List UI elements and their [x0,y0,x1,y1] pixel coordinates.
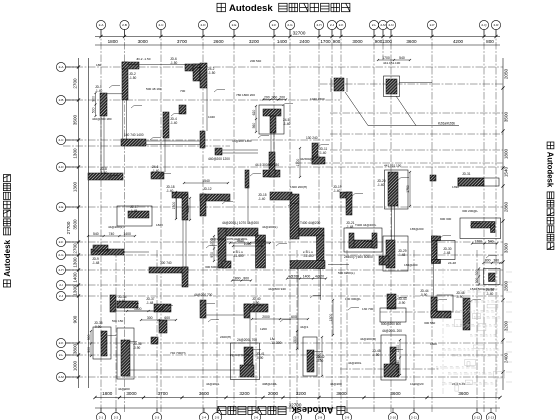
node top axis 2-Q [479,20,488,29]
svg-text:560: 560 [252,123,256,129]
svg-text:Autodesk: Autodesk [229,3,273,14]
svg-text:3600: 3600 [336,391,347,396]
svg-text:440@200 180: 440@200 180 [92,117,112,121]
svg-text:-1.48: -1.48 [146,301,153,305]
grid line H11 [63,342,503,344]
node top axis 2-A [96,20,105,29]
interior dimension 540/740/1400 [87,232,136,237]
svg-text:2-D: 2-D [201,23,207,27]
svg-text:44@200(L): 44@200(L) [108,225,124,229]
svg-text:2600: 2600 [213,39,224,44]
svg-text:-1.50: -1.50 [170,61,177,65]
svg-text:2-10: 2-10 [390,415,396,419]
dimension chain right [501,58,508,390]
svg-text:44@200L: 44@200L [206,382,220,386]
svg-text:1400: 1400 [123,232,131,236]
node top axis 2-K [336,20,345,29]
svg-text:760 740: 760 740 [396,360,400,372]
svg-text:2-6: 2-6 [254,415,259,419]
svg-text:1400: 1400 [277,39,288,44]
beam B15 [116,310,154,312]
svg-text:200: 200 [279,95,285,99]
svg-text:3500: 3500 [73,114,78,125]
svg-text:2000: 2000 [155,307,163,311]
svg-text:1000: 1000 [73,360,78,371]
svg-text:2-E: 2-E [59,205,64,209]
grid line Hp5 (partial) [330,149,503,151]
svg-text:900: 900 [333,39,341,44]
svg-text:3500: 3500 [504,111,509,122]
wall W36 [117,328,142,379]
svg-text:-0.90: -0.90 [420,293,427,297]
svg-text:540: 540 [488,239,494,243]
wall JD-11 [306,136,327,164]
beam B23 [399,82,432,84]
svg-text:500: 500 [91,107,95,113]
svg-text:1300: 1300 [396,345,400,353]
grid line Hp3 (partial) [330,133,503,135]
interior dimension 1540 [183,179,229,184]
interior dimension 200/960/200 (above JD-8) [262,95,287,100]
grid line H12 [63,354,503,356]
grid line V2 [124,30,126,413]
wall W34 [110,295,138,312]
leader line from column KZ-2 [396,96,416,126]
svg-text:1500: 1500 [134,307,142,311]
svg-text:1700: 1700 [474,239,482,243]
svg-text:-0.90: -0.90 [94,325,101,329]
grid line V-b7 (bottom partial) [413,250,415,412]
svg-text:-1.48: -1.48 [398,253,405,257]
svg-text:1040 1500: 1040 1500 [310,97,325,101]
wall W19 [91,245,124,265]
wall W24 [200,187,230,216]
interior elevation -13.300 [270,337,282,345]
svg-text:130 240: 130 240 [306,136,318,140]
svg-text:3700: 3700 [177,39,188,44]
node bottom axis b10 [388,413,397,420]
svg-text:2400(H): 2400(H) [220,335,231,339]
grid line V1 [100,30,102,413]
svg-text:200200: 200200 [254,239,265,243]
grid line H1 [63,66,503,68]
svg-text:2-8: 2-8 [318,415,323,419]
svg-text:2700: 2700 [73,78,78,89]
node left axis L1 [56,62,65,71]
wall JD-2 [122,62,139,100]
interior dimension 44@200/1400 (below core R) [286,274,327,279]
svg-text:3000: 3000 [138,39,149,44]
interior dimension 1500 (x297) [293,330,298,350]
svg-text:1040: 1040 [208,115,215,119]
wall W16 [151,165,164,179]
grid line V10 [340,30,342,413]
svg-text:-1.40: -1.40 [486,292,493,296]
svg-text:780 1800 200: 780 1800 200 [236,93,255,97]
svg-text:24@200L 700: 24@200L 700 [237,338,257,342]
svg-text:2-G: 2-G [58,253,64,257]
interior dimension 2300 (left) [172,191,177,220]
svg-text:3200: 3200 [249,39,260,44]
node left axis L3 [56,135,65,144]
svg-text:32700: 32700 [289,402,302,407]
beam B11 [270,133,272,152]
node bottom axis b5 [212,413,221,420]
svg-text:100 300@L: 100 300@L [345,297,361,301]
svg-text:T400 44@200: T400 44@200 [300,221,320,225]
beam B19 [206,314,244,316]
svg-text:440@200 1200: 440@200 1200 [208,157,230,161]
grid line H5 [63,206,503,208]
svg-text:2-L: 2-L [372,23,377,27]
wall W47 [430,175,436,181]
svg-text:27700: 27700 [66,221,71,234]
node left axis L12 [56,350,65,359]
grid line V13 [390,30,392,413]
grid line H10 [63,295,503,297]
svg-text:165@200: 165@200 [410,227,424,231]
svg-text:3200: 3200 [296,391,307,396]
svg-text:1750: 1750 [406,185,410,193]
svg-text:500 150: 500 150 [112,319,123,323]
interior dimension 2000/600 [251,315,309,320]
svg-text:2-2: 2-2 [114,415,119,419]
svg-text:-1.48: -1.48 [443,251,450,255]
svg-text:300 200@L: 300 200@L [462,209,478,213]
node bottom axis b3 [152,413,161,420]
svg-text:24400(?) 600 50500: 24400(?) 600 50500 [344,255,373,259]
label leader marks [98,67,497,354]
svg-text:300: 300 [493,259,499,263]
grid line Hp4 (partial) [63,145,230,147]
svg-text:44@200(L) 1070 44@200: 44@200(L) 1070 44@200 [222,221,259,225]
svg-text:44@200L: 44@200L [348,361,362,365]
node top axis 2-R [491,20,500,29]
svg-text:2-L: 2-L [59,353,64,357]
wall W35 [87,321,111,359]
node left axis L9 [56,280,65,289]
svg-text:-11.400: -11.400 [233,254,244,258]
svg-text:3200: 3200 [239,391,250,396]
svg-text:2@40(H)L 700: 2@40(H)L 700 [230,353,251,357]
watermark bottom: Autodesk educational plot stamp [218,405,345,415]
dimension chain bottom [93,391,501,408]
grid line V4 [202,30,204,413]
svg-text:1500: 1500 [293,336,297,344]
grid line V-b8 (bottom partial) [476,250,478,412]
faint underlay drawing (bottom right) [436,268,512,395]
svg-text:-0.90: -0.90 [252,301,259,305]
svg-text:-1.48: -1.48 [346,225,353,229]
svg-text:Autodesk: Autodesk [546,152,555,188]
svg-text:4@20: 4@20 [315,274,324,278]
svg-text:1800: 1800 [504,148,509,159]
svg-text:165@200: 165@200 [404,263,418,267]
grid line H4 [63,166,503,168]
beam B27 [182,220,184,267]
node bottom axis b7 [292,413,301,420]
beam B5 [176,198,178,219]
svg-text:2-B: 2-B [59,98,64,102]
svg-text:2-J: 2-J [330,23,335,27]
svg-text:600: 600 [291,315,297,319]
node top axis 2-F [269,20,278,29]
interior dimension 1700/540 (right) [377,56,411,61]
svg-text:500 48 190: 500 48 190 [146,87,162,91]
beam B21 [394,206,396,240]
svg-text:1700: 1700 [320,39,331,44]
svg-text:3000: 3000 [126,391,137,396]
interior dimension 1040 (mid) [232,242,263,247]
svg-text:3600: 3600 [390,391,401,396]
core wall left [210,221,266,268]
beam B14 [124,251,149,253]
svg-text:1500: 1500 [329,314,333,322]
svg-text:2-I: 2-I [59,283,63,287]
svg-text:44@200 1300: 44@200 1300 [232,139,252,143]
node top axis 2-G [285,20,294,29]
svg-text:3700: 3700 [158,391,169,396]
grid line V-b6 (bottom partial) [346,250,348,412]
beam B24 [247,188,249,222]
grid line H13 [63,376,503,378]
beam B28 [185,220,187,267]
svg-text:3600: 3600 [199,391,210,396]
svg-text:1200: 1200 [260,327,267,331]
svg-text:1500: 1500 [318,353,322,361]
svg-text:900: 900 [73,315,78,323]
svg-text:1320: 1320 [186,205,190,213]
watermark top: Autodesk educational plot stamp [217,3,350,14]
svg-text:620: 620 [252,110,256,116]
svg-text:3500: 3500 [73,219,78,230]
svg-text:-1.48: -1.48 [92,261,99,265]
svg-text:180: 180 [96,63,101,67]
grid line V16 [495,30,497,413]
node top axis 2-B [120,20,129,29]
svg-text:1800: 1800 [233,276,241,280]
svg-text:540: 540 [93,232,99,236]
svg-text:2-5: 2-5 [215,415,220,419]
grid line H9 [63,284,503,286]
wall JD-12 T [255,152,280,177]
grid line V-b3 (bottom partial) [216,250,218,412]
svg-text:2-C: 2-C [159,23,165,27]
svg-text:44@200: 44@200 [330,382,342,386]
svg-text:3300: 3300 [504,242,509,253]
svg-text:-1.40: -1.40 [170,121,177,125]
grid line V-b2 (bottom partial) [156,250,158,412]
beam B30 [249,318,251,347]
node top axis 2-D [198,20,207,29]
svg-text:-11.400: -11.400 [303,254,314,258]
grid line Hp1 (partial) [320,83,503,85]
svg-text:JD-12: JD-12 [203,187,212,191]
node bottom axis b6 [251,413,260,420]
node bottom axis b2 [111,413,120,420]
wall JD-4 [163,112,177,138]
node top axis 2-L [369,20,378,29]
svg-text:T400 44@200L: T400 44@200L [355,223,377,227]
grid line H8 [63,269,503,271]
leader tick marks near KZ-1 [331,78,347,92]
svg-text:24-48: 24-48 [448,261,456,265]
wall W44 [420,289,453,318]
svg-text:960: 960 [272,95,278,99]
svg-text:1300: 1300 [73,148,78,159]
svg-text:2-1: 2-1 [99,415,104,419]
beam B1 [107,93,122,95]
svg-text:900: 900 [87,334,91,340]
grid line V3 [160,30,162,413]
wall W45 T [372,329,406,380]
svg-text:44@200(L): 44@200(L) [262,225,278,229]
svg-text:44@1: 44@1 [300,325,309,329]
svg-text:2-M: 2-M [380,23,386,27]
wall W18 [166,185,191,221]
interior dimension 1500 (x300) [296,147,301,178]
svg-text:JD-2 -1.50: JD-2 -1.50 [136,57,151,61]
wall W30 C [432,236,456,264]
svg-text:900: 900 [87,347,91,353]
grid line V14 [431,30,433,413]
beam B2 [128,64,185,66]
svg-text:2400: 2400 [299,39,310,44]
svg-text:1300: 1300 [73,285,78,296]
grid line V8 [318,30,320,413]
svg-text:2-B: 2-B [122,23,127,27]
wall W41 T [231,338,265,380]
beam B20 [391,206,393,240]
wall W27 [377,170,411,209]
node left axis L10 [56,291,65,300]
wall JD-8 T [252,105,291,134]
dimension chain top [95,31,500,46]
node bottom axis b11 [409,413,418,420]
svg-text:-1.40: -1.40 [258,197,265,201]
svg-text:44@200 700: 44@200 700 [194,293,213,297]
svg-text:2-E: 2-E [232,23,237,27]
svg-text:3600: 3600 [406,39,417,44]
grid line V15 [483,30,485,413]
node bottom axis b12 [472,413,481,420]
grid line Hp8 (partial) [340,368,440,370]
grid line V11 [373,30,375,413]
grid line Hp6 (partial) [295,162,503,164]
node bottom axis b9 [342,413,351,420]
wall JD-9 [200,131,205,148]
node top axis 2-J [327,20,336,29]
svg-text:1300: 1300 [73,257,78,268]
svg-text:2700: 2700 [73,243,78,254]
svg-text:740: 740 [109,232,115,236]
svg-text:1540: 1540 [504,166,509,177]
svg-text:130 700: 130 700 [362,307,373,311]
svg-text:44@500 940: 44@500 940 [268,287,286,291]
svg-text:740 700(H): 740 700(H) [170,351,185,355]
beam B16 [130,369,240,371]
svg-text:2-J: 2-J [59,294,64,298]
node left axis L4 [56,162,65,171]
svg-text:1840: 1840 [156,223,163,227]
svg-text:2-D: 2-D [59,165,65,169]
leader line from column KZ-1 [345,92,459,126]
svg-text:44@200L 200: 44@200L 200 [382,329,402,333]
node top axis 2-P [427,20,436,29]
svg-text:-1.50: -1.50 [208,71,215,75]
svg-text:1390: 1390 [452,185,459,189]
svg-text:1400: 1400 [73,272,78,283]
wall W42 [303,336,325,377]
grid line V7 [289,30,291,413]
svg-text:800: 800 [485,259,491,263]
wall JD-5 [179,105,186,114]
node top axis 2-M [378,20,387,29]
node left axis L11 [56,338,65,347]
grid line V6 [273,30,275,413]
node left axis L5 [56,202,65,211]
svg-text:2-9: 2-9 [345,415,350,419]
svg-text:300: 300 [475,278,479,284]
wall JD-1 [91,85,107,117]
node top axis 2-N [386,20,395,29]
svg-text:140 740 1400: 140 740 1400 [124,133,144,137]
svg-text:2-F: 2-F [272,23,277,27]
svg-text:4@200: 4@200 [288,274,299,278]
wall JD-6 [170,57,200,81]
svg-text:-1.50: -1.50 [129,76,136,80]
wall W26 [333,185,352,215]
grid line H7 [63,254,503,256]
svg-text:1540: 1540 [202,179,210,183]
svg-text:3000: 3000 [352,39,363,44]
wall JD-10 [208,148,230,161]
svg-text:1800: 1800 [102,391,113,396]
grid line H2 [63,99,340,101]
svg-text:300: 300 [147,316,153,320]
wall W48 [456,291,470,330]
svg-text:300 560: 300 560 [424,321,435,325]
svg-text:44@200(H): 44@200(H) [360,337,376,341]
svg-text:-0.90: -0.90 [398,301,405,305]
wall W37 [146,297,171,333]
wall W29 [379,236,408,271]
grid line Hp2 (partial) [330,112,503,114]
beam B8 [206,88,208,131]
grid line V9 [331,30,333,413]
svg-text:-13.300: -13.300 [270,341,282,345]
beam B22 [328,264,349,266]
beam B17 [320,268,322,300]
svg-text:1300 200(H): 1300 200(H) [290,185,307,189]
node left axis L8 [56,265,65,274]
svg-text:600: 600 [164,316,170,320]
node bottom axis b13 [486,413,495,420]
svg-text:1300: 1300 [382,39,393,44]
svg-text:2-H: 2-H [59,268,64,272]
svg-text:-0.90: -0.90 [372,353,379,357]
svg-text:441 051 190: 441 051 190 [384,164,401,168]
svg-text:500@200 600: 500@200 600 [381,322,401,326]
svg-text:3800: 3800 [73,343,78,354]
svg-text:2-M: 2-M [58,375,64,379]
svg-text:900: 900 [91,96,95,102]
svg-text:2-13: 2-13 [488,415,494,419]
grid line H3 [63,139,330,141]
wall JD-7 [200,63,215,88]
svg-text:2-N: 2-N [389,23,394,27]
svg-text:1040: 1040 [244,242,252,246]
